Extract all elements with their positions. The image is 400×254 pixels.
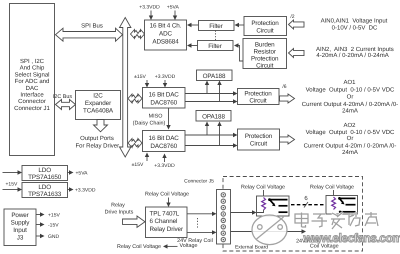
burden resistor protection circuit: [243, 39, 287, 70]
svg-text:(Daisy Chain): (Daisy Chain): [133, 120, 166, 126]
svg-text:±15V: ±15V: [132, 162, 144, 168]
MISO daisy chain wire: [133, 108, 171, 130]
AO2 label: [304, 122, 397, 156]
svg-text:ADS8684: ADS8684: [152, 39, 179, 46]
DAC1 DAC8760: [143, 88, 186, 109]
svg-text:LDO: LDO: [38, 167, 51, 174]
wire driver to J5 (b): [187, 230, 217, 234]
bus to DAC1 isolation arrow: [128, 94, 142, 103]
svg-text:AO1: AO1: [343, 79, 356, 86]
svg-text:0-10V / 0-5V DC: 0-10V / 0-5V DC: [332, 24, 378, 31]
svg-text:DAC: DAC: [26, 85, 39, 92]
svg-text:Voltage: Voltage: [180, 243, 198, 249]
svg-text:Current Output 4-20mA / 0-20mA: Current Output 4-20mA / 0-20mA /0-: [302, 101, 398, 108]
svg-text:Burden: Burden: [255, 42, 275, 49]
wire J5 to relay K1: [231, 210, 257, 214]
svg-text:GND: GND: [48, 234, 60, 240]
svg-text:External Board: External Board: [235, 245, 268, 251]
svg-text:+5VA: +5VA: [167, 5, 180, 11]
protection circuit P1: [244, 17, 287, 36]
svg-text:Relay Coil Voltage: Relay Coil Voltage: [117, 244, 161, 250]
op-amp OPA188 #2: [196, 111, 231, 122]
connector J1: [10, 4, 55, 156]
bus to ADC isolation arrow: [131, 30, 145, 39]
DAC2 DAC8760: [143, 131, 186, 152]
LDO TPS7A1650: [22, 166, 68, 182]
svg-text:For Relay Driver: For Relay Driver: [75, 143, 119, 150]
svg-text:-15V: -15V: [48, 223, 59, 229]
+3.3VDD rail to DAC1: [155, 74, 176, 88]
svg-text:Relay: Relay: [111, 203, 125, 209]
svg-text:Connector J1: Connector J1: [14, 105, 50, 112]
svg-text:ADC: ADC: [159, 31, 173, 38]
svg-text:SPI , I2C: SPI , I2C: [20, 58, 45, 65]
ADC ADS8684: [145, 20, 187, 50]
svg-text:±15V: ±15V: [134, 74, 146, 80]
AIN2/AIN3 label: [316, 46, 394, 59]
svg-text:/6: /6: [282, 84, 286, 90]
+5VA output of LDO1: [68, 170, 89, 176]
svg-text:+5VA: +5VA: [76, 171, 89, 177]
svg-text:Voltage Output 0-10 / 0-5V V: Voltage Output 0-10 / 0-5V VDC: [306, 87, 395, 94]
svg-text:Select Signal: Select Signal: [14, 71, 49, 78]
relay coil voltage return label: [117, 244, 178, 250]
wire +15V into LDO2: [3, 182, 23, 192]
svg-text:Power: Power: [11, 212, 28, 219]
svg-text:Filter: Filter: [208, 43, 221, 50]
svg-text:Or: Or: [347, 93, 354, 100]
svg-text:Protection: Protection: [245, 133, 273, 140]
svg-text:16 Bit DAC: 16 Bit DAC: [149, 92, 180, 99]
relay coil voltage feed to driver: [145, 192, 189, 208]
svg-text:Connector: Connector: [18, 98, 46, 105]
-15V output of J3: [36, 222, 59, 228]
wire driver to J5 (a): [187, 212, 217, 216]
svg-text:Circuit: Circuit: [250, 141, 267, 148]
output ports down arrow: [75, 120, 119, 150]
+15V output of J3: [36, 212, 60, 218]
svg-text:www.elecfans.com: www.elecfans.com: [303, 231, 400, 245]
wire J5 24V coil supply: [231, 229, 307, 233]
external board dashed outline: [223, 177, 363, 252]
wire DAC1 to protection AO1 (a): [185, 91, 238, 95]
filter F1: [199, 21, 235, 31]
svg-text:Protection: Protection: [244, 91, 272, 98]
svg-text:LDO: LDO: [38, 184, 51, 191]
svg-text:16 Bit 4 Ch.: 16 Bit 4 Ch.: [150, 23, 182, 30]
svg-text:SPI Bus: SPI Bus: [81, 23, 103, 30]
svg-text:24mA: 24mA: [342, 149, 358, 156]
24V relay coil label left: [177, 238, 213, 249]
24V relay coil voltage label: [296, 238, 339, 249]
power supply input J3: [4, 209, 36, 246]
watermark url: [303, 231, 400, 245]
svg-text:24mA: 24mA: [342, 108, 358, 115]
AO2 output arrow: [280, 135, 295, 144]
wire filter2 to ADC: [187, 43, 198, 47]
svg-text:Input: Input: [13, 227, 27, 234]
svg-text:+3.3VDD: +3.3VDD: [154, 163, 175, 169]
relay K1 contacts: [268, 198, 287, 212]
svg-text:Relay Driver: Relay Driver: [150, 226, 183, 233]
relay coil voltage label K2: [310, 185, 354, 196]
svg-text:Circuit: Circuit: [256, 28, 273, 35]
svg-text:Current Output 4-20m / 0-20mA: Current Output 4-20m / 0-20mA /0-: [304, 143, 397, 150]
dotted link between filters: [215, 31, 217, 41]
protection circuit P3: [238, 89, 280, 105]
SPI bus horizontal arrow: [56, 23, 123, 42]
±15V rail to DAC1: [134, 74, 149, 88]
svg-text:TPL 7407L: TPL 7407L: [150, 211, 180, 218]
±15V rail to DAC2: [132, 153, 150, 169]
I2C bus arrow: [53, 94, 76, 110]
svg-text:6 Channel: 6 Channel: [150, 218, 178, 225]
svg-text:/2: /2: [290, 14, 294, 20]
wire DAC2 to protection AO2 (b): [185, 143, 238, 147]
svg-text:Relay Coil Voltage: Relay Coil Voltage: [310, 185, 354, 191]
watermark hanzi: [295, 212, 378, 229]
+3.3VDD output of LDO2: [68, 187, 96, 193]
svg-text:Circuit: Circuit: [256, 63, 273, 70]
svg-text:+3.3VDD: +3.3VDD: [155, 74, 176, 80]
wire DAC2 to protection AO2 (a): [185, 133, 238, 137]
SPI bus vertical arrow: [120, 18, 131, 158]
svg-text:Output Ports: Output Ports: [80, 135, 114, 142]
svg-text:TPS7A1633: TPS7A1633: [28, 191, 62, 198]
watermark logo: [252, 215, 287, 245]
svg-text:+15V: +15V: [48, 213, 60, 219]
svg-text:Or: Or: [347, 135, 354, 142]
sense arrows into OPA188 #2: [205, 122, 222, 146]
svg-text:DAC8760: DAC8760: [150, 143, 177, 150]
AO1 output arrow: [280, 84, 295, 103]
relay K1 coil: [262, 198, 266, 210]
svg-text:Drive Inputs: Drive Inputs: [105, 210, 134, 216]
svg-text:For ADC and: For ADC and: [15, 78, 50, 85]
dotted channels indicator: [197, 218, 199, 229]
relay K2 coil: [332, 197, 336, 209]
relay drive inputs arrow: [105, 203, 145, 228]
svg-text:And Chip: And Chip: [20, 65, 45, 72]
+5VA rail to ADC: [167, 5, 180, 21]
svg-text:I2C: I2C: [93, 93, 103, 100]
svg-text:OPA188: OPA188: [203, 73, 226, 80]
svg-text:Supply: Supply: [11, 220, 31, 227]
AIN0/AIN1 label: [321, 18, 388, 32]
svg-text:DAC8760: DAC8760: [150, 100, 177, 107]
svg-text:+3.3VDD: +3.3VDD: [75, 188, 96, 194]
I2C expander TCA6408A: [76, 91, 121, 120]
relay driver TPL7407L: [146, 207, 188, 238]
watermark hanzi white emboss: [295, 212, 378, 229]
svg-text:Filter: Filter: [209, 23, 222, 30]
wire DAC1 to protection AO1 (b): [185, 99, 238, 103]
wire filter1 to ADC: [187, 23, 199, 27]
svg-text:I2C Bus: I2C Bus: [53, 94, 72, 100]
connector J5 pins: [221, 193, 225, 242]
+3.3VDD rail to DAC2: [154, 154, 175, 170]
op-amp OPA188 #1: [197, 70, 233, 81]
svg-text:Protection: Protection: [251, 56, 279, 63]
AIN voltage input arrow: [289, 14, 305, 29]
AO1 label: [302, 79, 398, 115]
svg-text:AIN0,AIN1 Voltage Input: AIN0,AIN1 Voltage Input: [321, 18, 388, 25]
AIN current input arrow: [289, 49, 305, 58]
wire +15V into LDO1: [3, 170, 23, 174]
relay K2: [326, 196, 358, 215]
svg-text:+15V: +15V: [6, 182, 18, 188]
svg-text:TCA6408A: TCA6408A: [83, 108, 114, 115]
LDO TPS7A1633: [22, 183, 68, 199]
svg-text:Relay Coil Voltage: Relay Coil Voltage: [145, 192, 189, 198]
svg-text:Circuit: Circuit: [249, 98, 266, 105]
svg-text:Connector J5: Connector J5: [184, 179, 214, 185]
svg-text:OPA188: OPA188: [202, 113, 225, 120]
GND output of J3: [36, 234, 60, 240]
protection circuit P4: [238, 129, 280, 150]
sense arrows into OPA188 #1: [205, 81, 222, 102]
bus to DAC2 isolation arrow: [128, 139, 142, 148]
svg-text:Resistor: Resistor: [254, 49, 276, 56]
dashed link 6 channels: [291, 195, 325, 208]
wire K1 coil return: [257, 210, 264, 213]
wire burden to filter2: [234, 43, 243, 61]
svg-text:MISO: MISO: [149, 113, 163, 119]
wire P1 to filter1: [235, 23, 245, 27]
svg-text:Voltage Output 0-10 / 0-5V V: Voltage Output 0-10 / 0-5V VDC: [306, 129, 395, 136]
svg-text:4-20mA / 0-20mA / 0-24mA: 4-20mA / 0-20mA / 0-24mA: [316, 52, 388, 59]
relay K1: [257, 196, 290, 216]
+3.3VDD rail to ADC: [139, 5, 160, 21]
svg-text:AO2: AO2: [343, 122, 356, 129]
svg-text:+3.3VDD: +3.3VDD: [139, 5, 160, 11]
relay K2 contacts: [338, 197, 355, 213]
connector J5: [184, 179, 230, 245]
svg-text:TPS7A1650: TPS7A1650: [28, 174, 62, 181]
svg-text:Expander: Expander: [85, 100, 111, 107]
relay coil voltage label K1: [241, 185, 285, 197]
svg-text:J3: J3: [17, 235, 24, 242]
filter F2: [198, 41, 234, 51]
svg-text:6: 6: [304, 195, 308, 202]
svg-text:16 Bit DAC: 16 Bit DAC: [149, 135, 180, 142]
svg-text:Interface: Interface: [20, 92, 44, 99]
svg-text:Relay Coil Voltage: Relay Coil Voltage: [241, 185, 285, 191]
svg-text:Protection: Protection: [251, 20, 279, 27]
